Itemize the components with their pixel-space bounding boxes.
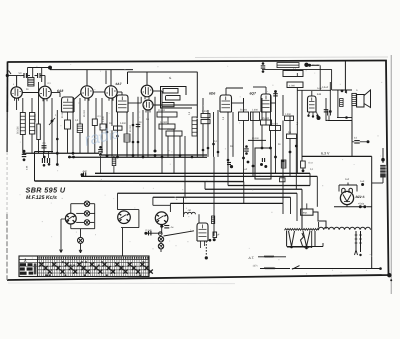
socket S2 loop bbox=[117, 193, 119, 209]
nested bus F bbox=[118, 192, 298, 194]
wire bbox=[76, 212, 84, 214]
svg-text:0,1MF: 0,1MF bbox=[146, 229, 153, 232]
resistor h bbox=[270, 126, 281, 131]
wire bbox=[160, 249, 162, 252]
wire tall bbox=[196, 72, 198, 157]
bus bbox=[228, 185, 310, 187]
left frame lower bbox=[6, 214, 8, 280]
table header ticks bbox=[38, 257, 39, 259]
wire bbox=[56, 110, 58, 153]
node bbox=[290, 246, 293, 249]
resistor bbox=[251, 112, 260, 121]
node blob bbox=[317, 116, 321, 120]
coil L1 bbox=[28, 78, 34, 87]
mains bottom wire bbox=[260, 268, 381, 270]
socket S3 bbox=[155, 212, 168, 225]
resistor bbox=[124, 134, 130, 142]
capacitor bbox=[148, 231, 150, 236]
lamp loop wires bbox=[70, 204, 72, 214]
wire bbox=[325, 98, 327, 121]
tube legs bbox=[309, 112, 310, 115]
socket S3 loop bbox=[152, 197, 154, 205]
wire bbox=[184, 136, 186, 197]
wire bbox=[346, 90, 348, 93]
resistor bbox=[100, 124, 106, 130]
node bbox=[213, 238, 216, 241]
resistor dashed bbox=[205, 241, 207, 256]
node bbox=[205, 256, 208, 259]
resistor small bbox=[287, 134, 297, 139]
capacitor C7 bbox=[42, 145, 47, 147]
wire bbox=[311, 231, 313, 248]
wire bbox=[289, 116, 291, 134]
wire bbox=[22, 92, 38, 94]
wire bbox=[56, 152, 58, 165]
resistor R-a bbox=[283, 71, 303, 77]
dial lamp 5 bbox=[158, 237, 163, 242]
scallop drop bbox=[318, 222, 320, 228]
wire bbox=[179, 136, 181, 157]
tube E6 envelope bbox=[197, 223, 208, 241]
tube V2 bbox=[39, 86, 52, 99]
resistor small bbox=[340, 99, 344, 107]
tube E3 envelope bbox=[220, 95, 232, 112]
ink blob bottom-right corner bbox=[387, 273, 391, 277]
resistor small bbox=[280, 178, 286, 182]
node bbox=[56, 152, 59, 155]
svg-text:50.000: 50.000 bbox=[17, 126, 20, 134]
node blob bbox=[304, 63, 308, 67]
wire bbox=[382, 178, 384, 184]
wire bbox=[262, 68, 332, 70]
svg-text:6D6: 6D6 bbox=[209, 92, 215, 96]
IF can 1 bbox=[20, 113, 25, 135]
wire bbox=[16, 76, 18, 87]
capacitor on bus bbox=[81, 173, 84, 176]
junction dots bbox=[242, 157, 245, 160]
bus D bbox=[35, 180, 244, 183]
node bbox=[379, 267, 382, 270]
wire bbox=[76, 221, 84, 223]
cap small bbox=[23, 150, 26, 153]
potentiometer bbox=[51, 98, 53, 153]
wire bbox=[261, 98, 263, 120]
capacitor bbox=[274, 90, 277, 93]
dial lamp 2 bbox=[84, 211, 89, 216]
svg-text:1MF: 1MF bbox=[360, 180, 365, 183]
scan edge line right bbox=[390, 55, 392, 294]
capacitor block bbox=[255, 148, 271, 179]
wire bbox=[79, 98, 81, 124]
svg-text:1.000: 1.000 bbox=[285, 113, 291, 116]
wire bbox=[275, 91, 277, 173]
resistor small bbox=[285, 116, 294, 121]
wire bbox=[311, 91, 313, 96]
wire bbox=[213, 157, 215, 236]
svg-text:1.000: 1.000 bbox=[252, 109, 258, 112]
speaker transformer laminations bbox=[352, 93, 356, 105]
staircase wire bbox=[313, 212, 326, 229]
node bbox=[68, 156, 71, 159]
resistor box top-right bbox=[277, 63, 299, 68]
wire bbox=[154, 97, 156, 151]
wire bbox=[41, 68, 43, 83]
wire bbox=[31, 98, 33, 113]
resistor v bbox=[192, 117, 197, 136]
wire bbox=[44, 75, 46, 77]
capacitor C2 bbox=[37, 73, 39, 78]
svg-text:1.000: 1.000 bbox=[102, 116, 105, 122]
mains coil bbox=[380, 165, 386, 178]
wire bbox=[146, 232, 162, 234]
wire bbox=[16, 98, 18, 110]
caps inside bbox=[260, 163, 263, 166]
wire bbox=[296, 73, 298, 76]
wire bbox=[270, 95, 272, 126]
wire drop right bbox=[371, 156, 373, 268]
node dot A bbox=[48, 66, 52, 70]
node bbox=[359, 205, 362, 208]
wire bbox=[132, 112, 134, 157]
wire bbox=[295, 139, 297, 190]
wire bbox=[337, 90, 339, 118]
tube E2 envelope bbox=[117, 95, 129, 112]
svg-text:6Q7: 6Q7 bbox=[250, 92, 258, 96]
wire bbox=[347, 183, 349, 186]
bus bbox=[23, 152, 99, 154]
wire bbox=[72, 98, 74, 153]
wire bbox=[265, 112, 267, 126]
wire bbox=[22, 98, 24, 113]
jack bbox=[159, 232, 163, 236]
wire bbox=[95, 98, 97, 119]
wire bbox=[183, 197, 185, 217]
capacitor C5 bbox=[326, 120, 353, 122]
wire bbox=[331, 69, 333, 90]
bus B bbox=[95, 172, 310, 174]
nested bus E bbox=[204, 181, 206, 189]
wire bbox=[153, 104, 197, 106]
page edge shadow bottom bbox=[8, 282, 235, 285]
wire bbox=[161, 97, 163, 173]
tube E4 envelope bbox=[261, 94, 271, 112]
caps in SBR box bbox=[41, 158, 43, 163]
svg-text:25.000: 25.000 bbox=[262, 117, 270, 120]
wire bbox=[67, 112, 69, 120]
socket S1 bbox=[65, 213, 76, 224]
svg-text:0,5MF: 0,5MF bbox=[322, 86, 329, 89]
wire bbox=[101, 98, 103, 124]
IF block outline bbox=[161, 87, 193, 109]
svg-text:50.000: 50.000 bbox=[129, 124, 132, 132]
svg-text:1MF: 1MF bbox=[243, 168, 248, 171]
svg-text:+5six: +5six bbox=[358, 203, 365, 206]
nested bus H bbox=[170, 202, 283, 204]
wire bbox=[32, 68, 34, 78]
scan speckle noise bbox=[101, 179, 102, 180]
tube V3 bbox=[81, 86, 93, 98]
tap bus bbox=[287, 246, 312, 248]
svg-text:25.000: 25.000 bbox=[83, 109, 86, 117]
scan shadow top bbox=[195, 56, 388, 59]
winding scallops bbox=[319, 227, 371, 230]
transformer squiggle bbox=[301, 233, 304, 246]
wire bbox=[382, 148, 384, 163]
bus bbox=[99, 154, 207, 156]
tube E1 envelope bbox=[62, 97, 75, 112]
tube V5b bbox=[143, 100, 153, 110]
svg-text:50.000: 50.000 bbox=[240, 109, 248, 112]
wire bbox=[243, 98, 245, 112]
wire bbox=[344, 62, 346, 94]
wire bbox=[51, 92, 60, 94]
node bbox=[160, 225, 163, 228]
svg-text:50.000: 50.000 bbox=[61, 110, 64, 118]
bus C bbox=[81, 175, 317, 177]
capacitor bbox=[136, 123, 141, 125]
wire bbox=[128, 102, 141, 104]
antenna terminal bbox=[6, 74, 9, 77]
svg-text:20.000: 20.000 bbox=[158, 109, 166, 112]
wire bbox=[153, 90, 162, 92]
wire bbox=[306, 203, 308, 209]
wire bbox=[301, 215, 303, 229]
node cap bbox=[230, 165, 233, 168]
rectifier tube bbox=[340, 191, 353, 204]
svg-text:5.000: 5.000 bbox=[202, 110, 208, 113]
wire bbox=[232, 102, 244, 104]
resistor h bbox=[163, 89, 178, 94]
svg-text:25.000: 25.000 bbox=[167, 128, 175, 131]
node bbox=[261, 147, 264, 150]
table diagonals bbox=[39, 262, 43, 266]
svg-text:243: 243 bbox=[317, 93, 322, 96]
wire bbox=[225, 88, 227, 95]
dropper sawtooth bbox=[285, 229, 319, 231]
svg-text:A.T.: A.T. bbox=[248, 256, 255, 260]
tube legs bbox=[200, 241, 202, 248]
SBR box left bbox=[34, 152, 36, 182]
wire bbox=[111, 98, 113, 126]
border frame bbox=[7, 61, 389, 281]
resistor h bbox=[162, 103, 174, 107]
transformer left drop bbox=[286, 231, 288, 247]
speaker cone bbox=[364, 90, 371, 108]
wire bbox=[167, 117, 169, 124]
wire bbox=[252, 112, 254, 176]
wire bbox=[337, 117, 352, 119]
resistor h bbox=[157, 112, 177, 117]
wire bbox=[232, 112, 234, 157]
resistor h bbox=[166, 131, 182, 136]
funnel tap 1 bbox=[289, 231, 295, 247]
svg-text:50.000: 50.000 bbox=[271, 123, 279, 126]
svg-text:6 or: 6 or bbox=[309, 162, 313, 165]
wire bbox=[329, 82, 331, 112]
resistor h bbox=[166, 96, 181, 101]
resistor bbox=[37, 124, 41, 140]
capacitor bbox=[99, 146, 102, 149]
rectifier pins bbox=[342, 188, 345, 193]
sec winding 1 bbox=[355, 231, 357, 252]
resistor h bbox=[261, 120, 272, 125]
wire bbox=[173, 129, 175, 173]
wire bbox=[137, 97, 139, 157]
resistor h bbox=[159, 124, 175, 129]
wire bbox=[217, 110, 219, 157]
left frame upper bbox=[6, 62, 8, 113]
wire bbox=[106, 112, 108, 157]
resistor bbox=[92, 119, 97, 126]
resistor pair bbox=[201, 114, 210, 118]
bus bbox=[68, 156, 207, 158]
wire bbox=[301, 90, 303, 161]
wire bbox=[122, 228, 124, 256]
svg-text:5.000: 5.000 bbox=[120, 122, 126, 125]
dial lamp 6 bbox=[158, 244, 163, 249]
dial lamp 4 bbox=[78, 237, 84, 243]
wire bbox=[43, 98, 45, 153]
wire bbox=[50, 69, 133, 71]
wire bbox=[117, 91, 122, 93]
wire bbox=[87, 98, 89, 153]
node bbox=[361, 183, 364, 186]
wire bbox=[146, 72, 148, 85]
wire bbox=[271, 102, 276, 104]
speaker body bbox=[357, 95, 364, 108]
wire bbox=[60, 219, 62, 253]
wire bbox=[74, 94, 81, 100]
capacitor C1 bbox=[23, 73, 25, 78]
tube V4 bbox=[105, 86, 117, 98]
wire bbox=[227, 112, 229, 186]
wire bbox=[7, 75, 20, 77]
resistor bbox=[65, 120, 71, 129]
bus 6.3V bbox=[302, 155, 372, 157]
wire bbox=[147, 110, 149, 157]
wire bbox=[202, 98, 204, 114]
left frame faded bbox=[6, 152, 8, 214]
wire bbox=[319, 65, 321, 90]
AT wire bbox=[258, 256, 286, 258]
svg-text:Imp.: Imp. bbox=[302, 211, 308, 215]
wire bbox=[339, 184, 357, 186]
capacitor bbox=[164, 225, 169, 227]
wire bbox=[309, 64, 320, 66]
svg-text:4M: 4M bbox=[171, 226, 174, 229]
wire bbox=[80, 229, 82, 238]
sec winding 2 bbox=[360, 231, 362, 252]
left frame mid bbox=[6, 112, 8, 152]
svg-text:2MF: 2MF bbox=[345, 178, 350, 181]
tube E5 envelope output bbox=[308, 96, 317, 112]
wire bbox=[207, 110, 209, 157]
resistor small bbox=[213, 232, 217, 238]
dial lamp 1 bbox=[84, 201, 89, 206]
svg-text:6A7: 6A7 bbox=[116, 82, 122, 86]
svg-text:λ: λ bbox=[23, 258, 27, 264]
resistor R-b bbox=[248, 139, 266, 141]
wire bbox=[309, 173, 311, 185]
wire diag bbox=[164, 231, 195, 236]
svg-text:BZ2 S: BZ2 S bbox=[356, 195, 366, 199]
resistor small bbox=[281, 160, 286, 168]
wire bbox=[316, 176, 318, 206]
svg-text:127V: 127V bbox=[253, 265, 259, 268]
wire bbox=[161, 225, 163, 234]
transformer coil node bbox=[381, 158, 385, 162]
wire bbox=[86, 70, 88, 86]
resistor bbox=[77, 124, 82, 133]
wire bbox=[282, 95, 284, 116]
resistor bbox=[239, 112, 249, 121]
wire bbox=[297, 89, 331, 91]
capacitor bbox=[245, 145, 248, 148]
capacitor C3 bbox=[262, 62, 265, 65]
wire bbox=[351, 121, 353, 157]
svg-text:M.F.125 Kc/s: M.F.125 Kc/s bbox=[26, 195, 57, 201]
wire top bus bbox=[28, 67, 51, 69]
wire bbox=[93, 91, 105, 93]
wire bbox=[346, 205, 348, 207]
switch lever bbox=[292, 266, 300, 270]
resistor h bbox=[114, 126, 123, 130]
wire bbox=[351, 106, 353, 139]
mains zigzag bbox=[264, 268, 275, 269]
switch box bbox=[301, 161, 306, 168]
wire bbox=[27, 68, 29, 78]
wire bbox=[38, 82, 40, 124]
wire bbox=[332, 89, 352, 91]
svg-text:100.000: 100.000 bbox=[34, 113, 37, 122]
svg-text:4.000: 4.000 bbox=[289, 84, 296, 87]
wire bbox=[110, 70, 112, 86]
capacitor C4 bbox=[324, 109, 329, 111]
wire bbox=[71, 203, 85, 205]
resistor bbox=[112, 158, 116, 166]
resistor small bbox=[212, 216, 215, 224]
socket S2 bbox=[118, 211, 131, 224]
wire bbox=[213, 112, 215, 157]
valve table bbox=[19, 256, 149, 277]
wire bbox=[265, 87, 267, 94]
resistor R-c bbox=[287, 82, 303, 88]
dial lamp 3 bbox=[84, 220, 89, 225]
svg-text:SBR 595 U: SBR 595 U bbox=[26, 186, 66, 195]
transformer right drop bbox=[314, 231, 316, 247]
wire bbox=[61, 218, 66, 220]
wire bbox=[126, 112, 128, 134]
svg-text:4MF: 4MF bbox=[83, 170, 88, 173]
nested bus G bbox=[153, 196, 291, 198]
tube V1 bbox=[11, 87, 22, 98]
table dark cells bbox=[20, 263, 26, 266]
capacitor C6 bbox=[354, 140, 360, 142]
funnel tap 2 bbox=[303, 231, 310, 247]
wire bbox=[198, 214, 200, 223]
tube V5 bbox=[141, 85, 153, 97]
transformer bottom wire bbox=[287, 246, 323, 248]
wire bbox=[117, 112, 119, 157]
svg-text:6,3 V: 6,3 V bbox=[321, 152, 330, 156]
wire bbox=[105, 71, 107, 85]
IF can 2 bbox=[30, 113, 35, 135]
wire bbox=[142, 110, 144, 157]
impedance box bbox=[301, 209, 313, 215]
svg-text:10.000: 10.000 bbox=[160, 121, 168, 124]
coil scallops bbox=[184, 212, 195, 214]
oscillator box top bbox=[128, 71, 198, 73]
